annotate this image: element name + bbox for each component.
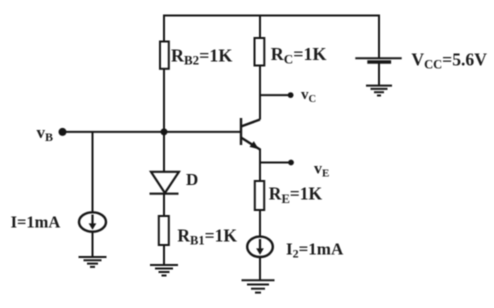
svg-text:vC: vC xyxy=(301,87,316,105)
arrow (I source) xyxy=(89,215,97,230)
wire emitter vertical xyxy=(259,149,261,182)
emitter arrowhead Q1 xyxy=(250,141,259,149)
diode D xyxy=(150,172,179,194)
wire battery top lead xyxy=(378,15,380,59)
svg-text:RB1=1K: RB1=1K xyxy=(177,226,237,248)
svg-text:I=1mA: I=1mA xyxy=(11,213,61,232)
wire diode cathode lead xyxy=(163,194,165,217)
svg-text:RB2=1K: RB2=1K xyxy=(171,46,232,68)
svg-text:vB: vB xyxy=(37,123,54,144)
wire I bottom lead xyxy=(92,232,94,257)
resistor RB2 xyxy=(160,42,169,69)
ground (RB1) xyxy=(150,265,178,276)
svg-text:I2=1mA: I2=1mA xyxy=(286,240,344,261)
wire RB1 bottom lead xyxy=(163,245,165,265)
resistor RB1 xyxy=(159,216,169,245)
wire diode anode lead xyxy=(163,132,165,172)
resistor RE xyxy=(255,181,264,210)
ground (I source) xyxy=(79,257,107,267)
ground (battery) xyxy=(366,86,392,96)
wire top rail xyxy=(164,15,379,17)
wire RE bottom lead xyxy=(259,210,261,237)
wire RC bottom lead xyxy=(259,66,261,120)
wire battery bottom lead xyxy=(378,62,380,86)
wire vC tap xyxy=(260,94,289,96)
resistor RC xyxy=(255,38,265,66)
wire I-source top lead xyxy=(92,132,94,212)
svg-text:RC=1K: RC=1K xyxy=(271,44,327,66)
node vC dot xyxy=(288,92,294,98)
wire RB2 bottom lead xyxy=(163,69,165,132)
svg-text:D: D xyxy=(186,170,198,189)
svg-text:RE=1K: RE=1K xyxy=(269,184,323,206)
transistor Q1 xyxy=(241,118,260,150)
ground (I2) xyxy=(242,280,275,292)
wire vE tap xyxy=(260,162,290,164)
wire RB2 top lead xyxy=(163,15,165,42)
svg-text:vE: vE xyxy=(314,161,329,180)
current source I2 xyxy=(247,237,273,257)
battery VCC xyxy=(355,58,401,62)
wire I2 bottom lead xyxy=(259,257,261,280)
wire RC top lead xyxy=(259,16,261,39)
current source I xyxy=(79,212,106,231)
junction dot (RB2/diode on vB wire) xyxy=(161,128,168,135)
node vE dot xyxy=(288,160,294,166)
arrow (I2 source) xyxy=(256,239,264,255)
node vB dot xyxy=(59,128,67,136)
wire vB horizontal xyxy=(62,131,241,133)
svg-text:VCC=5.6V: VCC=5.6V xyxy=(411,50,487,72)
